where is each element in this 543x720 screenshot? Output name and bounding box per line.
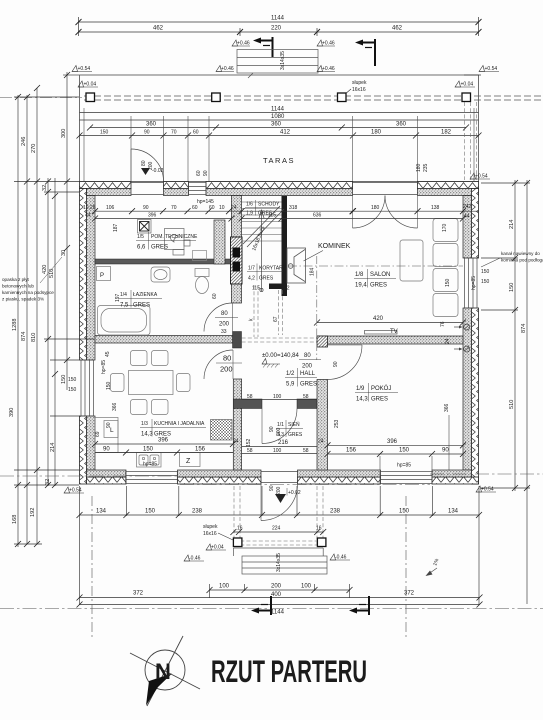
top wall seg C (206, 182, 353, 189)
svg-text:12: 12 (284, 286, 290, 292)
svg-text:KORYTARZ: KORYTARZ (259, 266, 286, 272)
svg-text:KOMINEK: KOMINEK (318, 243, 351, 250)
horizontal section dash-dot line mid (through house) (0, 475, 180, 477)
svg-text:P: P (100, 273, 104, 279)
dim line 462/220/462 (79, 31, 479, 33)
svg-text:200: 200 (276, 427, 282, 436)
dim row B 16|224|16 (233, 531, 323, 533)
svg-text:3x14x35: 3x14x35 (276, 553, 282, 572)
svg-text:32: 32 (45, 479, 51, 485)
svg-text:214: 214 (50, 443, 56, 452)
window top (60, hp=145) (189, 183, 207, 195)
levels at porch (206, 544, 212, 550)
svg-text:366: 366 (112, 402, 118, 411)
door pom.tech->taras swing (131, 149, 164, 182)
svg-text:510: 510 (49, 269, 55, 278)
duct wall niche pom.tech (214, 220, 225, 264)
svg-text:32: 32 (42, 185, 48, 191)
svg-text:RZUT PARTERU: RZUT PARTERU (211, 653, 367, 689)
svg-text:+0.54: +0.54 (69, 488, 82, 494)
svg-text:76: 76 (440, 321, 446, 327)
svg-text:396: 396 (387, 439, 398, 445)
top wall seg D (418, 182, 479, 189)
svg-text:242: 242 (463, 204, 472, 210)
washing machine P (97, 267, 111, 281)
left wall lower segment (80, 416, 87, 484)
svg-text:67: 67 (273, 316, 279, 322)
svg-text:390: 390 (9, 408, 15, 417)
svg-text:214: 214 (509, 220, 515, 229)
svg-text:246: 246 (21, 137, 27, 146)
svg-text:115: 115 (252, 286, 260, 292)
window left (150, hp=85) (81, 360, 94, 416)
svg-text:z piasku, spadek 3%: z piasku, spadek 3% (2, 297, 44, 302)
section cut mark top-left (253, 37, 273, 57)
svg-text:60: 60 (192, 205, 198, 211)
svg-text:10: 10 (219, 205, 225, 211)
svg-text:138: 138 (431, 205, 440, 211)
svg-text:33: 33 (221, 329, 227, 335)
svg-text:24: 24 (231, 205, 237, 211)
window bottom kitchen (150) (126, 472, 178, 484)
svg-text:396: 396 (158, 438, 169, 444)
svg-text:156: 156 (346, 448, 357, 454)
svg-text:16: 16 (237, 526, 243, 532)
wall lazienka/kuchnia (95, 336, 233, 344)
svg-text:80: 80 (141, 160, 147, 166)
svg-text:hp=85: hp=85 (101, 360, 107, 374)
svg-text:70: 70 (171, 205, 177, 211)
svg-text:235: 235 (423, 163, 429, 172)
wc (195, 269, 209, 277)
right +0.54 bottom (476, 486, 482, 492)
salon/pokoj wall (317, 336, 463, 344)
svg-text:69: 69 (95, 431, 101, 437)
svg-text:150: 150 (143, 447, 154, 453)
svg-text:462: 462 (392, 26, 403, 32)
stairs side wall (black) (282, 196, 288, 296)
dim row 1144 bottom (80, 604, 480, 606)
svg-text:100: 100 (273, 448, 282, 454)
svg-text:ŁAZIENKA: ŁAZIENKA (133, 292, 158, 298)
svg-text:24: 24 (233, 439, 239, 445)
salon closet (433, 219, 458, 242)
svg-text:1144: 1144 (271, 16, 285, 22)
svg-text:14,3: 14,3 (356, 397, 368, 403)
dim row C 100|200|100 + 372 (80, 584, 480, 598)
extension lines from building (14, 96, 79, 98)
svg-text:150: 150 (68, 377, 77, 383)
svg-text:134: 134 (448, 509, 459, 515)
central wall (pom.tech | schody) (232, 196, 242, 304)
svg-text:90: 90 (143, 205, 149, 211)
porch dashed roof lines (234, 486, 323, 548)
svg-text:80: 80 (304, 353, 311, 359)
svg-text:44: 44 (85, 213, 91, 219)
svg-text:197: 197 (115, 293, 121, 302)
svg-text:1/8: 1/8 (355, 272, 364, 278)
svg-text:1/9: 1/9 (356, 386, 365, 392)
svg-text:słupek: słupek (203, 524, 218, 530)
level +0.54 right (479, 66, 485, 72)
svg-text:kanał nawiewny do: kanał nawiewny do (501, 251, 540, 256)
kitchen bottom counter (95, 452, 233, 454)
level marker +0.46 (4x) (232, 40, 250, 47)
left wall upper segment (80, 189, 87, 361)
svg-text:4,2: 4,2 (248, 276, 255, 282)
svg-text:100: 100 (219, 584, 230, 590)
svg-text:366: 366 (444, 403, 450, 412)
svg-text:90: 90 (144, 130, 150, 136)
terrace roof posts 16x16 (86, 93, 471, 102)
window right (150, hp=85) (465, 258, 478, 308)
svg-text:1144: 1144 (271, 610, 285, 616)
level +0.04 right (455, 81, 461, 87)
svg-text:220: 220 (271, 26, 282, 32)
svg-text:24: 24 (445, 338, 451, 344)
svg-text:hp=145: hp=145 (197, 199, 214, 205)
right +0.54 upper (470, 173, 476, 179)
svg-text:90: 90 (269, 426, 275, 432)
svg-text:hp=85: hp=85 (143, 462, 157, 468)
boiler (165, 229, 185, 250)
level +0.54 left (72, 66, 78, 72)
sien left wall (233, 379, 241, 470)
svg-text:5,9: 5,9 (286, 382, 295, 388)
right wall lower segment (472, 308, 479, 484)
window bottom pokoj (150) (380, 472, 432, 484)
sien right wall (317, 380, 328, 471)
left +0.54 bottom (64, 487, 70, 493)
chairs (131, 351, 148, 366)
svg-text:238: 238 (330, 509, 341, 515)
french door double swing salon->taras (353, 196, 386, 229)
washbasin (151, 267, 170, 282)
svg-text:150: 150 (509, 283, 515, 292)
level +0.04 left (78, 81, 84, 87)
sien north wall stubs (233, 399, 262, 409)
svg-text:400: 400 (271, 592, 282, 598)
svg-text:180: 180 (371, 130, 382, 136)
svg-text:1/7: 1/7 (248, 266, 255, 272)
svg-text:GRES: GRES (133, 303, 150, 309)
terrace steps 3x14x35 top center (237, 50, 318, 79)
svg-text:150: 150 (61, 375, 67, 384)
wall pom.tech/lazienka (thin dark) (95, 259, 232, 264)
svg-text:152: 152 (246, 438, 252, 447)
svg-text:±0.00=140,84: ±0.00=140,84 (262, 353, 299, 359)
top wall seg A (80, 182, 132, 189)
svg-text:10,25: 10,25 (83, 205, 96, 211)
svg-text:60: 60 (193, 130, 199, 136)
svg-text:156: 156 (195, 447, 206, 453)
bottom wall seg D (432, 477, 479, 484)
svg-text:24: 24 (318, 439, 324, 445)
svg-text:412: 412 (280, 130, 291, 136)
svg-text:opaska z płyt: opaska z płyt (2, 277, 30, 282)
svg-text:168: 168 (12, 515, 18, 524)
svg-text:+0.54: +0.54 (78, 66, 91, 72)
svg-text:kamiennych na podsypce: kamiennych na podsypce (2, 290, 54, 295)
svg-text:200: 200 (302, 364, 313, 370)
svg-text:1/4: 1/4 (120, 292, 127, 298)
hall/salon axis dash-dot (316, 256, 318, 360)
svg-text:60: 60 (212, 293, 218, 299)
svg-text:360: 360 (271, 122, 282, 128)
svg-text:100: 100 (301, 584, 312, 590)
svg-text:170: 170 (442, 223, 448, 232)
sink double (137, 453, 162, 468)
air duct dash-dot to fireplace (288, 265, 463, 267)
svg-text:58: 58 (303, 448, 309, 454)
top wall segments: zig outer band + stipple inner band (80, 182, 479, 485)
svg-text:253: 253 (334, 419, 340, 428)
svg-text:N: N (155, 659, 171, 684)
svg-text:16: 16 (316, 526, 322, 532)
svg-text:KUCHNIA I JADALNIA: KUCHNIA I JADALNIA (154, 421, 205, 427)
entry door threshold (261, 471, 298, 473)
svg-text:19,4: 19,4 (355, 283, 367, 289)
svg-text:150: 150 (145, 509, 156, 515)
svg-text:200: 200 (220, 365, 233, 374)
svg-text:80: 80 (221, 311, 228, 317)
svg-text:TARAS: TARAS (263, 156, 295, 165)
svg-text:+0.04: +0.04 (461, 82, 474, 88)
svg-text:POKÓJ: POKÓJ (371, 385, 391, 392)
entry door swing (261, 484, 298, 521)
stair direction line with arrow (259, 210, 264, 291)
svg-text:60: 60 (196, 170, 202, 176)
shelf above wc (193, 251, 207, 261)
fireplace (287, 248, 306, 283)
svg-text:270: 270 (31, 144, 37, 153)
svg-text:SIEŃ: SIEŃ (288, 421, 300, 428)
roof overhang dashed lines across terrace (84, 96, 543, 100)
pokoj door swing (328, 345, 363, 380)
terrace slab outline (80, 75, 479, 182)
svg-text:+0.02: +0.02 (288, 490, 301, 496)
section cut mark top-right (355, 39, 375, 66)
svg-text:-0.02: -0.02 (152, 168, 164, 174)
svg-text:420: 420 (373, 316, 384, 322)
svg-text:182: 182 (441, 130, 452, 136)
svg-text:90: 90 (442, 448, 449, 454)
svg-text:106: 106 (106, 205, 115, 211)
bathroom door swing (204, 303, 233, 332)
svg-text:słupek: słupek (352, 80, 367, 86)
stair break line diagonal (243, 206, 280, 244)
svg-text:192: 192 (30, 508, 36, 517)
svg-text:GRES: GRES (370, 283, 387, 289)
svg-text:14,3: 14,3 (141, 432, 153, 438)
dim line 1144 top (79, 21, 479, 23)
svg-text:HALL: HALL (300, 371, 316, 377)
svg-text:150: 150 (399, 509, 410, 515)
svg-text:1/6: 1/6 (246, 202, 253, 208)
svg-text:372: 372 (404, 591, 415, 597)
svg-text:90: 90 (106, 422, 112, 428)
dishwasher Z (180, 453, 201, 467)
svg-text:3x14x35: 3x14x35 (280, 51, 286, 70)
svg-text:GRES: GRES (259, 276, 274, 282)
svg-text:90: 90 (269, 485, 275, 491)
svg-text:100: 100 (273, 394, 282, 400)
svg-text:+0.54: +0.54 (475, 174, 488, 180)
svg-text:360: 360 (396, 122, 407, 128)
svg-text:150: 150 (106, 381, 112, 390)
bottom wall seg C (298, 477, 381, 484)
svg-text:874: 874 (21, 332, 27, 341)
svg-text:7,5: 7,5 (120, 303, 129, 309)
svg-text:90: 90 (203, 170, 209, 176)
terrace right edge dashed verticals (465, 102, 477, 180)
svg-text:+0.54: +0.54 (485, 66, 498, 72)
svg-text:150: 150 (399, 448, 410, 454)
svg-text:318: 318 (289, 205, 298, 211)
salon/pokoj wall end block (317, 336, 328, 347)
table (129, 371, 174, 395)
vent symbols in right wall (454, 324, 470, 352)
terrace extension lines (84, 108, 474, 181)
wall stub between bathroom and kitchen doors (233, 332, 242, 349)
svg-text:300: 300 (61, 129, 67, 138)
svg-text:238: 238 (192, 509, 203, 515)
svg-text:200: 200 (276, 486, 282, 495)
svg-text:1/3: 1/3 (141, 421, 148, 427)
west axis dash-dot vertical (91, 496, 93, 640)
svg-text:Z: Z (186, 458, 191, 465)
svg-text:GRES: GRES (151, 245, 168, 251)
svg-text:462: 462 (153, 26, 164, 32)
salon table (400, 240, 423, 281)
svg-text:GRES: GRES (371, 397, 388, 403)
svg-text:180: 180 (371, 205, 380, 211)
svg-text:224: 224 (272, 526, 281, 532)
svg-text:-0.46: -0.46 (189, 556, 201, 562)
svg-text:betonowych lub: betonowych lub (2, 284, 34, 289)
svg-text:90: 90 (103, 447, 110, 453)
svg-text:6,6: 6,6 (137, 245, 146, 251)
svg-text:115: 115 (268, 213, 276, 219)
porch slab + steps (233, 548, 327, 574)
svg-text:SALON: SALON (370, 272, 390, 278)
svg-text:+0.46: +0.46 (237, 41, 250, 47)
svg-text:+0.04: +0.04 (211, 545, 224, 551)
svg-text:150: 150 (68, 387, 77, 393)
svg-text:+0.54: +0.54 (481, 487, 494, 493)
dashed projection lines in korytarz (242, 285, 317, 342)
svg-text:150: 150 (481, 279, 490, 285)
svg-text:1288: 1288 (12, 319, 18, 331)
svg-text:TV: TV (390, 329, 398, 335)
svg-text:1080: 1080 (271, 114, 285, 120)
svg-text:180: 180 (416, 163, 422, 172)
svg-text:150: 150 (481, 269, 490, 275)
svg-text:+0.04: +0.04 (84, 82, 97, 88)
stove crosshatch (211, 420, 233, 441)
bathtub (98, 306, 151, 336)
svg-text:1/5: 1/5 (137, 234, 144, 240)
svg-text:30: 30 (61, 250, 67, 256)
bottom wall seg A (87, 477, 127, 484)
kitchen left counter + fridge (95, 418, 118, 453)
svg-text:16x16: 16x16 (203, 531, 217, 537)
svg-text:372: 372 (133, 591, 144, 597)
svg-text:1/1: 1/1 (277, 422, 284, 428)
terrace dim row 1144 (80, 113, 479, 136)
svg-text:216: 216 (278, 440, 289, 446)
svg-text:150: 150 (100, 130, 109, 136)
svg-text:-0.46: -0.46 (335, 555, 347, 561)
svg-text:60: 60 (209, 205, 215, 211)
svg-text:396: 396 (148, 213, 157, 219)
chimney block with flues (231, 237, 243, 284)
svg-text:POM. TECHNICZNE: POM. TECHNICZNE (151, 234, 198, 240)
svg-text:58: 58 (303, 394, 309, 400)
svg-text:200: 200 (271, 584, 282, 590)
svg-text:58: 58 (247, 448, 253, 454)
section marks bottom (251, 596, 271, 615)
svg-text:90: 90 (333, 361, 339, 367)
hall->sien door swing (262, 409, 297, 444)
svg-text:GRES: GRES (300, 382, 317, 388)
svg-text:hp=85: hp=85 (397, 463, 411, 469)
svg-text:1/2: 1/2 (286, 371, 295, 377)
bottom wall seg B (178, 477, 262, 484)
svg-text:636: 636 (313, 213, 322, 219)
porch posts (233, 538, 326, 547)
svg-text:150: 150 (445, 278, 451, 287)
vent square with X in pom.tech (140, 222, 150, 232)
svg-text:1144: 1144 (271, 107, 285, 113)
TV (365, 331, 398, 335)
svg-text:187: 187 (113, 223, 119, 232)
terrace door threshold (90) top-left (131, 182, 164, 184)
horizontal section dash-dot line bottom (0, 608, 543, 610)
french door threshold (180) (353, 182, 418, 184)
svg-text:SCHODY: SCHODY (258, 202, 280, 208)
kitchen door swing (204, 350, 233, 379)
svg-text:80: 80 (223, 354, 231, 363)
svg-text:874: 874 (521, 324, 527, 333)
svg-text:510: 510 (509, 400, 515, 409)
entry level marker (275, 494, 286, 503)
svg-text:200: 200 (219, 322, 230, 328)
svg-text:GRES: GRES (288, 432, 303, 438)
svg-text:134: 134 (96, 509, 107, 515)
bottom dim row A y515 (80, 486, 480, 605)
svg-text:58: 58 (247, 394, 253, 400)
svg-text:184: 184 (310, 267, 316, 276)
-0.02 level at terrace door (141, 168, 150, 175)
svg-text:360: 360 (146, 122, 157, 128)
svg-text:420: 420 (42, 265, 48, 274)
svg-text:45: 45 (105, 351, 111, 357)
svg-text:44: 44 (464, 214, 470, 220)
extension verticals at ends (78, 17, 80, 36)
svg-text:hp=85: hp=85 (471, 276, 477, 290)
svg-text:16x16: 16x16 (352, 87, 366, 93)
top wall seg B (164, 182, 189, 189)
svg-text:70: 70 (171, 130, 177, 136)
right wall upper segment (472, 189, 479, 259)
svg-text:810: 810 (31, 333, 37, 342)
